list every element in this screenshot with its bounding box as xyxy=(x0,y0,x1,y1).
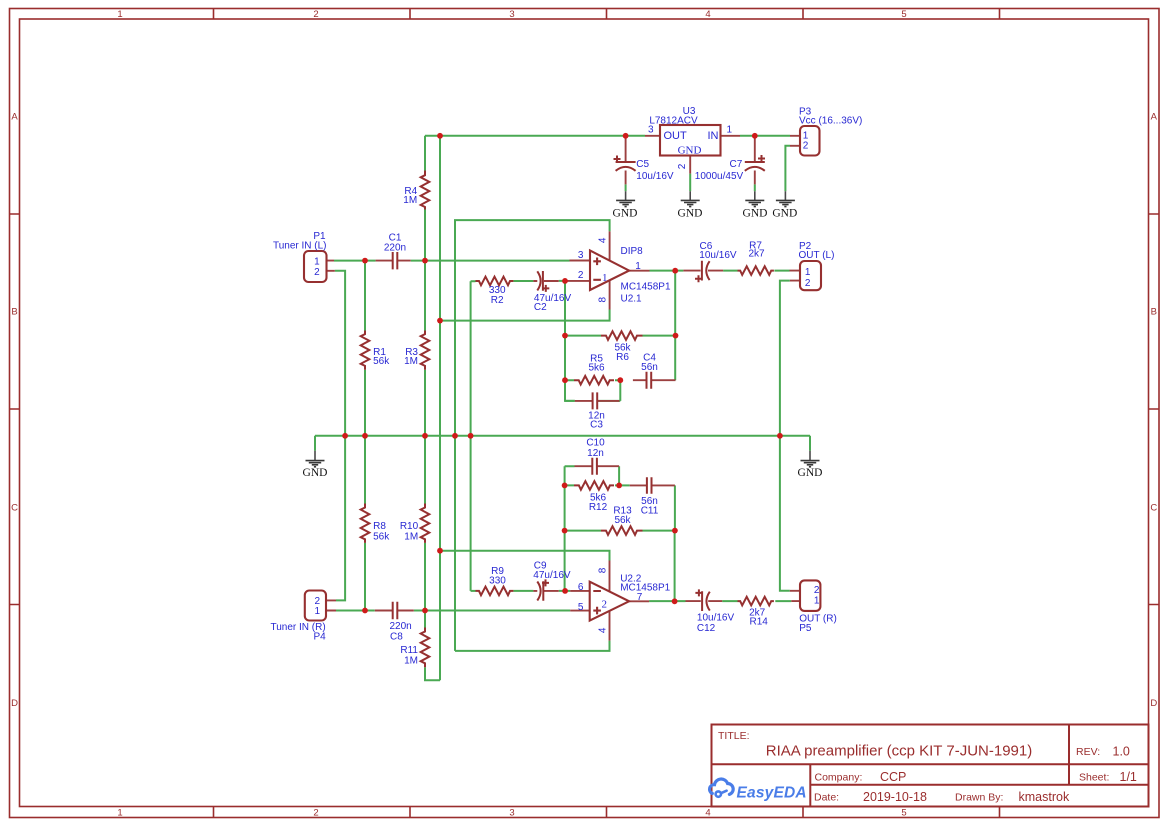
svg-text:C: C xyxy=(11,503,18,514)
svg-text:1: 1 xyxy=(602,272,608,284)
svg-text:Vcc (16...36V): Vcc (16...36V) xyxy=(799,115,862,126)
svg-text:L7812ACV: L7812ACV xyxy=(649,116,698,127)
svg-text:R14: R14 xyxy=(750,617,769,628)
svg-text:4: 4 xyxy=(705,808,710,819)
svg-text:EasyEDA: EasyEDA xyxy=(737,785,807,802)
svg-text:56k: 56k xyxy=(373,532,390,543)
svg-text:12n: 12n xyxy=(587,448,604,459)
svg-text:3: 3 xyxy=(509,808,514,819)
svg-text:8: 8 xyxy=(597,567,608,573)
svg-text:10u/16V: 10u/16V xyxy=(697,613,735,624)
svg-text:A: A xyxy=(1151,112,1158,123)
svg-text:C11: C11 xyxy=(641,506,659,517)
svg-text:RIAA preamplifier (ccp KIT 7-J: RIAA preamplifier (ccp KIT 7-JUN-1991) xyxy=(766,743,1032,760)
svg-text:A: A xyxy=(11,112,18,123)
svg-text:10u/16V: 10u/16V xyxy=(699,250,737,261)
svg-text:IN: IN xyxy=(708,130,719,142)
svg-text:5: 5 xyxy=(901,808,906,819)
svg-text:2: 2 xyxy=(677,163,688,169)
svg-text:1: 1 xyxy=(635,261,641,272)
svg-text:kmastrok: kmastrok xyxy=(1019,790,1070,804)
svg-text:1.0: 1.0 xyxy=(1113,745,1130,759)
svg-text:C12: C12 xyxy=(697,623,716,634)
svg-text:2k7: 2k7 xyxy=(749,249,766,260)
svg-text:C8: C8 xyxy=(390,632,403,643)
svg-text:MC1458P1: MC1458P1 xyxy=(620,582,670,593)
svg-text:Sheet:: Sheet: xyxy=(1079,772,1109,784)
svg-text:C: C xyxy=(1150,503,1157,514)
svg-text:R10: R10 xyxy=(400,521,419,532)
svg-text:GND: GND xyxy=(772,208,797,220)
svg-text:P5: P5 xyxy=(799,623,812,634)
svg-text:2019-10-18: 2019-10-18 xyxy=(863,790,927,804)
svg-text:8: 8 xyxy=(597,296,608,302)
svg-text:2: 2 xyxy=(814,585,820,596)
svg-text:B: B xyxy=(1151,307,1157,318)
svg-text:C10: C10 xyxy=(586,438,605,449)
svg-text:5: 5 xyxy=(901,9,906,20)
svg-text:2: 2 xyxy=(805,278,811,289)
svg-text:1: 1 xyxy=(727,125,733,136)
svg-text:330: 330 xyxy=(489,576,506,587)
svg-text:2: 2 xyxy=(314,267,320,278)
svg-text:MC1458P1: MC1458P1 xyxy=(621,281,671,292)
svg-text:B: B xyxy=(11,307,17,318)
svg-text:R2: R2 xyxy=(491,295,504,306)
svg-text:GND: GND xyxy=(743,208,768,220)
svg-text:C7: C7 xyxy=(730,159,743,170)
svg-text:TITLE:: TITLE: xyxy=(718,730,750,742)
svg-text:56k: 56k xyxy=(373,356,390,367)
svg-text:C2: C2 xyxy=(534,302,547,313)
svg-text:Date:: Date: xyxy=(814,792,839,804)
svg-text:10u/16V: 10u/16V xyxy=(636,171,674,182)
svg-text:R6: R6 xyxy=(616,352,629,363)
svg-text:4: 4 xyxy=(597,237,608,243)
svg-text:1M: 1M xyxy=(403,195,417,206)
svg-text:1M: 1M xyxy=(404,356,418,367)
svg-text:2: 2 xyxy=(803,141,809,152)
svg-text:4: 4 xyxy=(597,627,608,633)
svg-text:2: 2 xyxy=(313,808,318,819)
svg-text:R8: R8 xyxy=(373,521,386,532)
svg-text:1/1: 1/1 xyxy=(1120,770,1137,784)
svg-text:REV:: REV: xyxy=(1076,746,1100,758)
svg-text:GND: GND xyxy=(798,467,823,479)
svg-text:56n: 56n xyxy=(641,362,658,373)
svg-text:4: 4 xyxy=(705,9,710,20)
svg-text:3: 3 xyxy=(648,125,654,136)
svg-text:CCP: CCP xyxy=(880,770,906,784)
svg-text:P4: P4 xyxy=(313,632,326,643)
svg-text:U2.1: U2.1 xyxy=(621,293,643,304)
svg-text:OUT: OUT xyxy=(664,130,688,142)
svg-text:R12: R12 xyxy=(589,502,608,513)
svg-text:D: D xyxy=(1150,698,1157,709)
svg-text:GND: GND xyxy=(303,467,328,479)
svg-text:2: 2 xyxy=(313,9,318,20)
svg-text:1: 1 xyxy=(314,256,320,267)
svg-text:1M: 1M xyxy=(404,655,418,666)
svg-text:1: 1 xyxy=(315,606,321,617)
svg-text:Tuner IN (L): Tuner IN (L) xyxy=(273,240,327,251)
svg-text:47u/16V: 47u/16V xyxy=(533,570,571,581)
svg-text:1: 1 xyxy=(805,267,811,278)
svg-text:GND: GND xyxy=(613,208,638,220)
svg-text:7: 7 xyxy=(637,592,643,603)
svg-text:1: 1 xyxy=(117,808,122,819)
svg-text:1: 1 xyxy=(814,596,820,607)
svg-text:5k6: 5k6 xyxy=(588,363,605,374)
svg-text:Drawn By:: Drawn By: xyxy=(955,792,1003,804)
svg-text:3: 3 xyxy=(509,9,514,20)
svg-text:2: 2 xyxy=(578,270,584,281)
svg-text:GND: GND xyxy=(678,208,703,220)
svg-text:6: 6 xyxy=(578,582,584,593)
svg-text:1000u/45V: 1000u/45V xyxy=(695,171,744,182)
svg-text:1: 1 xyxy=(117,9,122,20)
svg-text:56k: 56k xyxy=(614,515,631,526)
svg-text:D: D xyxy=(11,698,18,709)
svg-text:C3: C3 xyxy=(590,420,603,431)
svg-text:C5: C5 xyxy=(636,159,649,170)
svg-text:DIP8: DIP8 xyxy=(621,246,644,257)
svg-text:1M: 1M xyxy=(404,532,418,543)
svg-text:3: 3 xyxy=(578,250,584,261)
svg-text:2: 2 xyxy=(602,598,608,610)
svg-text:GND: GND xyxy=(678,145,702,157)
svg-text:Company:: Company: xyxy=(815,772,863,784)
svg-text:OUT (L): OUT (L) xyxy=(799,250,835,261)
svg-text:220n: 220n xyxy=(384,243,406,254)
svg-text:5: 5 xyxy=(578,602,584,613)
